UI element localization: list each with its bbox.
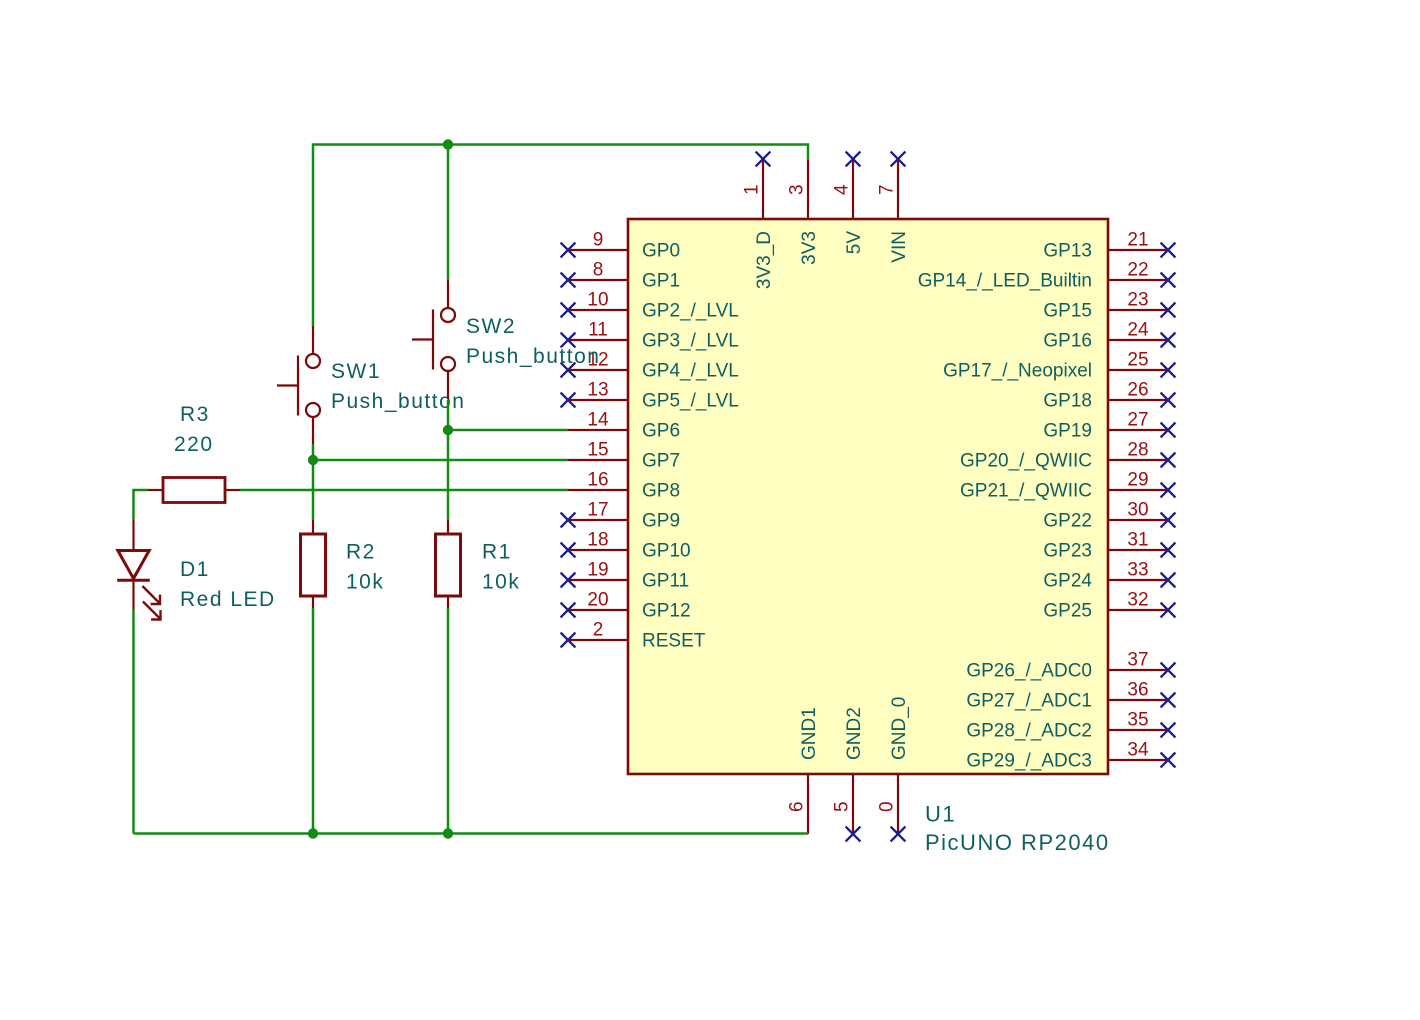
svg-text:34: 34 [1127,740,1149,761]
svg-text:GP2_/_LVL: GP2_/_LVL [642,301,739,322]
svg-text:GP15: GP15 [1043,301,1092,322]
svg-text:R2: R2 [346,541,376,564]
junction ground bus / R2 [308,828,318,838]
svg-text:9: 9 [593,230,604,251]
LED D1 Red LED [117,520,160,620]
svg-text:GP3_/_LVL: GP3_/_LVL [642,331,739,352]
svg-text:21: 21 [1127,230,1148,251]
svg-text:SW1: SW1 [331,360,381,383]
wire ground bus bottom [134,832,809,835]
svg-text:GP23: GP23 [1043,541,1092,562]
svg-text:3: 3 [787,184,808,195]
svg-text:GP17_/_Neopixel: GP17_/_Neopixel [943,361,1092,382]
junction 3V3 rail / SW2 [443,139,453,149]
svg-text:RESET: RESET [642,631,706,652]
svg-text:30: 30 [1127,500,1148,521]
U1 pin 36 (GP27_/_ADC1) right [966,680,1175,712]
switch SW2 push button [412,280,455,399]
U1 pin 25 (GP17_/_Neopixel) right [943,350,1175,382]
svg-text:10: 10 [587,290,608,311]
svg-text:220: 220 [174,433,214,456]
svg-text:23: 23 [1127,290,1148,311]
svg-text:PicUNO RP2040: PicUNO RP2040 [925,830,1110,855]
U1 pin 24 (GP16) right [1043,320,1175,352]
U1 pin 9 (GP0) left [561,230,680,262]
U1 pin 28 (GP20_/_QWIIC) right [960,440,1175,472]
U1 pin 2 (RESET) left [561,620,706,652]
switch SW1 push button [277,326,320,445]
svg-text:15: 15 [587,440,608,461]
svg-text:5V: 5V [844,231,865,255]
svg-text:0: 0 [877,801,898,812]
U1 pin 16 (GP8) left [568,470,680,502]
svg-text:Push_button: Push_button [466,345,600,368]
svg-text:26: 26 [1127,380,1148,401]
svg-text:GP14_/_LED_Builtin: GP14_/_LED_Builtin [918,271,1092,292]
svg-text:Red LED: Red LED [180,588,276,611]
wire SW2 bottom to GP6 junction down to R1 [447,400,450,520]
U1 pin 12 (GP4_/_LVL) left [561,350,739,382]
svg-text:10k: 10k [482,571,520,594]
resistor R2 10k [301,520,326,610]
svg-text:28: 28 [1127,440,1148,461]
svg-text:GP26_/_ADC0: GP26_/_ADC0 [966,661,1092,682]
svg-text:R3: R3 [180,403,210,426]
svg-text:35: 35 [1127,710,1148,731]
svg-text:3V3_D: 3V3_D [754,231,775,289]
junction ground bus / R1 [443,828,453,838]
U1 pin 13 (GP5_/_LVL) left [561,380,739,412]
svg-text:36: 36 [1127,680,1148,701]
svg-text:13: 13 [587,380,608,401]
U1 pin 35 (GP28_/_ADC2) right [966,710,1175,742]
svg-text:5: 5 [832,801,853,812]
wire R2 bottom to ground bus [312,608,315,834]
svg-text:GP29_/_ADC3: GP29_/_ADC3 [966,751,1092,772]
U1 pin 20 (GP12) left [561,590,691,622]
svg-text:14: 14 [587,410,609,431]
svg-text:32: 32 [1127,590,1148,611]
U1 pin 15 (GP7) left [568,440,680,472]
U1 pin 1 (3V3_D) top [742,152,775,290]
svg-text:2: 2 [593,620,604,641]
U1 pin 30 (GP22) right [1043,500,1175,532]
svg-text:GND1: GND1 [799,707,820,760]
svg-text:GP20_/_QWIIC: GP20_/_QWIIC [960,451,1092,472]
U1 pin 23 (GP15) right [1043,290,1175,322]
svg-text:22: 22 [1127,260,1148,281]
U1 pin 10 (GP2_/_LVL) left [561,290,739,322]
svg-text:U1: U1 [925,802,956,827]
IC U1 PicUNO RP2040 body [628,219,1108,774]
U1 pin 21 (GP13) right [1043,230,1175,262]
wire GP6 branch [448,429,568,432]
U1 pin 31 (GP23) right [1043,530,1175,562]
svg-text:19: 19 [587,560,608,581]
svg-text:27: 27 [1127,410,1148,431]
wire SW1 bottom to GP7 junction down to R2 [312,444,315,520]
U1 pin 26 (GP18) right [1043,380,1175,412]
svg-text:1: 1 [742,184,763,195]
svg-text:Push_button: Push_button [331,390,465,413]
wire R3 left to LED D1 anode [134,490,149,520]
svg-text:4: 4 [832,184,853,195]
svg-text:20: 20 [587,590,608,611]
wire 3V3 rail: SW1 top corner to pin 3 [313,145,808,327]
svg-text:GP25: GP25 [1043,601,1092,622]
svg-text:GP27_/_ADC1: GP27_/_ADC1 [966,691,1092,712]
U1 pin 5 (GND2) bottom [832,707,865,841]
svg-text:SW2: SW2 [466,315,516,338]
wire SW2 top branch from 3V3 rail [447,145,450,281]
U1 pin 18 (GP10) left [561,530,691,562]
svg-text:6: 6 [787,801,808,812]
svg-text:GP1: GP1 [642,271,680,292]
svg-text:GP7: GP7 [642,451,680,472]
U1 pin 33 (GP24) right [1043,560,1175,592]
svg-text:10k: 10k [346,571,384,594]
svg-text:R1: R1 [482,541,512,564]
svg-text:GP18: GP18 [1043,391,1092,412]
svg-text:GP24: GP24 [1043,571,1092,592]
U1 pin 34 (GP29_/_ADC3) right [966,740,1175,772]
svg-text:29: 29 [1127,470,1148,491]
wire GP8 to R3 [240,489,568,492]
svg-text:GP16: GP16 [1043,331,1092,352]
svg-text:GP10: GP10 [642,541,691,562]
svg-text:GP6: GP6 [642,421,680,442]
U1 pin 29 (GP21_/_QWIIC) right [960,470,1175,502]
wire R1 bottom to ground bus [447,608,450,834]
U1 pin 27 (GP19) right [1043,410,1175,442]
svg-text:GND2: GND2 [844,707,865,760]
svg-text:16: 16 [587,470,608,491]
wire LED D1 cathode down [132,609,135,834]
svg-text:24: 24 [1127,320,1149,341]
svg-text:GP13: GP13 [1043,241,1092,262]
U1 pin 37 (GP26_/_ADC0) right [966,650,1175,682]
U1 pin 17 (GP9) left [561,500,680,532]
U1 pin 14 (GP6) left [568,410,680,442]
svg-text:GP5_/_LVL: GP5_/_LVL [642,391,739,412]
U1 pin 19 (GP11) left [561,560,690,592]
U1 pin 32 (GP25) right [1043,590,1175,622]
svg-text:17: 17 [587,500,608,521]
svg-text:GP4_/_LVL: GP4_/_LVL [642,361,739,382]
U1 pin 22 (GP14_/_LED_Builtin) right [918,260,1176,292]
svg-text:3V3: 3V3 [799,231,820,265]
svg-text:GP19: GP19 [1043,421,1092,442]
svg-text:VIN: VIN [889,231,910,263]
U1 pin 0 (GND_0) bottom [877,697,910,842]
svg-text:GND_0: GND_0 [889,697,910,760]
U1 pin 4 (5V) top [832,152,865,255]
svg-text:11: 11 [588,320,608,341]
svg-text:GP8: GP8 [642,481,680,502]
svg-text:37: 37 [1127,650,1148,671]
svg-text:GP9: GP9 [642,511,680,532]
svg-text:7: 7 [877,184,898,195]
U1 pin 7 (VIN) top [877,152,910,263]
svg-text:D1: D1 [180,558,210,581]
U1 pin 11 (GP3_/_LVL) left [561,320,739,352]
wire GP7 branch [313,459,568,462]
svg-text:31: 31 [1127,530,1148,551]
U1 pin 6 (GND1) bottom [787,707,820,834]
svg-text:GP28_/_ADC2: GP28_/_ADC2 [966,721,1092,742]
svg-text:GP22: GP22 [1043,511,1092,532]
svg-text:33: 33 [1127,560,1148,581]
svg-text:8: 8 [593,260,604,281]
junction GP7 / R2 [308,455,318,465]
svg-text:GP0: GP0 [642,241,680,262]
svg-text:25: 25 [1127,350,1148,371]
U1 pin 8 (GP1) left [561,260,680,292]
svg-text:GP12: GP12 [642,601,691,622]
junction GP6 / R1 [443,425,453,435]
resistor R1 10k [436,520,461,610]
svg-text:GP21_/_QWIIC: GP21_/_QWIIC [960,481,1092,502]
resistor R3 220 (horizontal) [148,478,240,503]
svg-text:18: 18 [587,530,608,551]
svg-text:GP11: GP11 [642,571,689,592]
U1 pin 3 (3V3) top [787,159,820,265]
